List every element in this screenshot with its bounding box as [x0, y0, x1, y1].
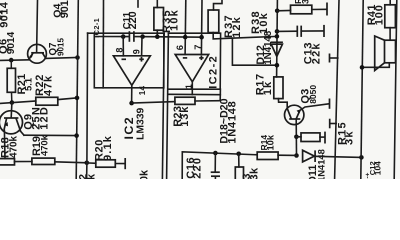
svg-text:100: 100	[373, 4, 385, 25]
bus line x361	[361, 0, 363, 179]
terminal tick x337 lower	[330, 119, 337, 129]
node pin7	[199, 35, 204, 40]
op-amp IC2-2	[175, 55, 208, 82]
node R35 bottom	[155, 34, 160, 39]
wire Q9 emitter down	[3, 130, 6, 158]
wire base row y102	[0, 98, 77, 104]
wire Q9 collector row	[21, 131, 77, 135]
svg-text:3k: 3k	[344, 130, 356, 145]
node D11 bus	[359, 155, 364, 160]
svg-text:5.1: 5.1	[23, 78, 34, 91]
label IC2-1	[92, 18, 101, 38]
label C12 polarity	[364, 172, 371, 178]
svg-text:10k: 10k	[139, 169, 151, 179]
svg-text:10k: 10k	[169, 9, 181, 31]
label Q4 9012 top	[52, 0, 71, 18]
svg-text:10k: 10k	[266, 134, 276, 150]
bus line x396	[394, 0, 397, 179]
label C12 104	[368, 161, 383, 175]
wire row y94.5	[168, 93, 221, 95]
node bus C	[74, 133, 79, 138]
wire C11 row	[96, 36, 164, 38]
svg-text:10k: 10k	[258, 12, 270, 34]
svg-text:220: 220	[192, 157, 204, 179]
capacitor C16	[211, 153, 220, 179]
node base-R14	[294, 153, 299, 158]
wire R18-R19	[15, 161, 32, 163]
wire D12 bypass	[232, 38, 277, 65]
diode D12	[271, 42, 283, 56]
wire row y37	[164, 36, 202, 38]
svg-text:9015: 9015	[57, 37, 66, 56]
capacitor C11	[129, 31, 134, 42]
speaker LS	[362, 36, 396, 71]
svg-text:12D: 12D	[39, 106, 51, 130]
wire Q7 base feed	[36, 0, 39, 53]
pin 8 label	[114, 46, 124, 52]
svg-text:3k: 3k	[248, 167, 260, 179]
svg-text:9014: 9014	[6, 31, 17, 54]
node IC2-1 out	[129, 101, 134, 106]
label R18 470k	[0, 136, 19, 158]
wire box2 right down	[219, 89, 221, 101]
svg-text:1N4148: 1N4148	[316, 149, 327, 179]
node x277 y31	[275, 29, 280, 34]
wire long vertical L1	[162, 33, 164, 179]
label C16 220	[185, 157, 204, 179]
label R13 3k fragment	[241, 167, 260, 180]
svg-text:47k: 47k	[43, 75, 55, 96]
pin 1 label	[184, 83, 194, 89]
wire Q3 emitter terminal	[300, 99, 330, 111]
svg-text:-+: -+	[364, 172, 371, 178]
label Q6 9014	[0, 31, 17, 54]
resistor R18	[0, 159, 15, 165]
pin 6 label	[174, 44, 185, 50]
label R40 fragment	[293, 0, 311, 4]
node x277 y65	[275, 63, 280, 68]
label D18~D20 1N4148	[218, 98, 238, 143]
wire IC2-2 output	[191, 82, 193, 95]
label R14 10k	[259, 134, 276, 150]
label R38 10k	[250, 10, 270, 34]
svg-text:01: 01	[0, 10, 5, 20]
node C11 left	[121, 34, 126, 39]
label Q3 8050	[300, 85, 318, 104]
label fragment top dash	[137, 0, 139, 7]
terminal tick x337 upper	[330, 54, 338, 63]
wire pin6 from top	[184, 0, 187, 55]
label R22 47k	[34, 74, 55, 96]
node R13	[236, 152, 241, 157]
wire Q3 base down	[295, 119, 297, 155]
label 220k fragment bottom	[78, 173, 98, 186]
node D	[85, 161, 90, 166]
wire stub x103	[102, 0, 104, 88]
resistor R19	[32, 158, 55, 164]
svg-text:9: 9	[132, 48, 142, 54]
wire pin7 from top	[200, 0, 203, 55]
resistor R15	[296, 132, 325, 144]
wire pin9	[141, 37, 143, 56]
svg-text:LM339: LM339	[135, 107, 146, 140]
svg-text:36: 36	[301, 0, 311, 4]
svg-text:220: 220	[127, 11, 139, 29]
svg-text:9.1k: 9.1k	[102, 135, 114, 161]
box IC2-1	[94, 33, 164, 88]
resistor R22	[36, 97, 58, 105]
wire R21 to Q9 base	[10, 103, 13, 118]
wire IC2-1 output	[131, 85, 133, 103]
svg-text:470k: 470k	[39, 134, 50, 156]
wire vertical x87	[87, 33, 88, 179]
resistor R35	[154, 0, 164, 37]
node x277 y11	[275, 9, 280, 14]
label Q7 9015	[48, 37, 66, 56]
wire bottom row	[182, 152, 257, 179]
resistor R17	[274, 77, 287, 109]
svg-text:13k: 13k	[179, 106, 191, 127]
wire vertical x277	[276, 0, 279, 77]
label R23 13k	[172, 106, 191, 127]
wire R19 to node D	[55, 162, 87, 163]
svg-text:IC2-2: IC2-2	[207, 55, 219, 89]
label D11 1N4148	[307, 149, 327, 184]
transistor Q3	[285, 105, 304, 124]
node Q7 base-left	[9, 58, 14, 63]
resistor R20	[87, 158, 125, 169]
svg-text:12k: 12k	[231, 16, 243, 38]
label R37 12k	[223, 14, 243, 38]
label IC2-2	[207, 55, 219, 89]
resistor R13	[235, 154, 243, 181]
wire Q7 collector to node	[46, 57, 78, 60]
label 10k fragment bottom	[139, 169, 151, 188]
wire x87 top tie	[88, 32, 95, 34]
resistor R23	[175, 97, 195, 104]
label 9014 fragment top-left	[0, 1, 11, 27]
node speaker bus	[360, 65, 365, 70]
svg-text:7: 7	[192, 43, 203, 49]
transistor Q9	[0, 111, 23, 134]
svg-text:IC2: IC2	[122, 116, 136, 139]
label R21 5.1	[16, 73, 34, 94]
label R17 1k	[254, 73, 274, 95]
wire pin8	[122, 37, 124, 56]
svg-text:9012: 9012	[59, 0, 71, 18]
wire vertical bus x78	[76, 0, 78, 179]
transistor Q7	[28, 44, 47, 63]
svg-text:104: 104	[373, 161, 383, 175]
node base-R15	[294, 135, 299, 140]
node C16	[213, 151, 218, 156]
box IC2-2	[168, 33, 221, 89]
label C11 220	[122, 11, 139, 29]
label R41 100	[366, 4, 385, 25]
capacitor C13	[277, 25, 324, 37]
label IC2 LM339	[122, 107, 147, 140]
svg-text:22k: 22k	[310, 42, 322, 64]
wire R23 row	[132, 101, 221, 103]
pin 14 label	[138, 86, 147, 96]
resistor R40 top right	[277, 3, 327, 16]
svg-text:8: 8	[114, 46, 124, 52]
op-amp IC2-1	[113, 56, 150, 86]
svg-text:6: 6	[174, 44, 185, 50]
wire long vertical L2	[167, 33, 169, 179]
resistor R41	[385, 0, 396, 40]
pin 7 label	[192, 43, 203, 49]
svg-text:14: 14	[138, 86, 147, 96]
label Q9 25N 12D	[23, 106, 51, 130]
node x277 y36	[275, 34, 280, 39]
node bus A	[75, 55, 80, 60]
label R35 10k	[161, 9, 181, 33]
wire Q7 emitter row	[0, 59, 29, 62]
resistor R37	[208, 0, 277, 39]
diode D11	[303, 150, 362, 162]
label D12 1N4148	[255, 30, 274, 65]
resistor R21	[7, 60, 15, 102]
pin 9 label	[132, 48, 142, 54]
bus line x337	[335, 0, 339, 179]
svg-text:470k: 470k	[9, 136, 20, 158]
svg-text:IC2-1: IC2-1	[92, 18, 101, 38]
node pin6	[183, 35, 188, 40]
label C13 22k	[302, 42, 322, 65]
svg-text:8050: 8050	[308, 85, 318, 104]
label R20 9.1k	[94, 135, 114, 161]
resistor R14	[257, 152, 296, 160]
node bus B	[75, 96, 80, 101]
svg-text:1N4148: 1N4148	[226, 101, 238, 144]
node R21-R22	[10, 100, 15, 105]
svg-text:1k: 1k	[262, 81, 274, 96]
label R15 3k	[336, 121, 355, 145]
svg-text:1N4148: 1N4148	[263, 30, 274, 65]
label R19 470k	[31, 134, 50, 156]
node C11 right	[140, 34, 145, 39]
